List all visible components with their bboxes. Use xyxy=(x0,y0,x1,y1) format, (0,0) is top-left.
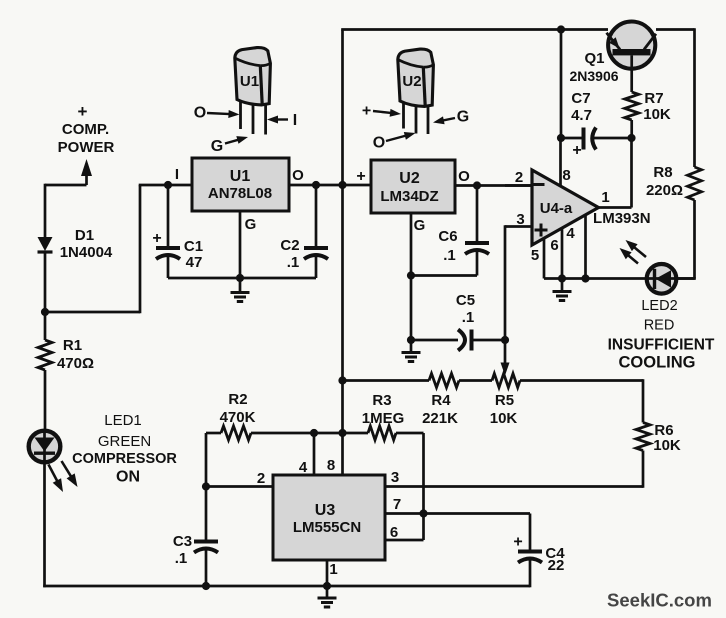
value 47 xyxy=(186,254,203,271)
wire pin2 into op-amp xyxy=(505,184,532,187)
label C2 xyxy=(280,237,299,254)
wire rail to R4 xyxy=(343,379,430,382)
value LM34DZ xyxy=(380,188,438,205)
wire +8V riser vertical xyxy=(341,30,344,476)
wire comp-power horizontal xyxy=(45,184,87,187)
label + (C7 polarity) xyxy=(572,142,581,159)
op-amp minus sign xyxy=(533,183,545,186)
svg-text:COMPRESSOR: COMPRESSOR xyxy=(72,451,177,467)
label R2 xyxy=(228,391,247,408)
label U4-a xyxy=(540,200,573,217)
value 1MEG xyxy=(362,410,405,427)
label INSUFFICIENT xyxy=(608,336,715,353)
value .1 (C6) xyxy=(443,247,456,264)
junction dot pin4 top xyxy=(310,429,318,437)
svg-text:G: G xyxy=(414,217,426,234)
svg-text:+: + xyxy=(572,142,581,159)
svg-text:10K: 10K xyxy=(490,410,518,427)
svg-text:10K: 10K xyxy=(653,437,681,454)
label C6 xyxy=(438,228,457,245)
wire C3 riser xyxy=(205,433,208,540)
svg-text:+: + xyxy=(78,102,88,121)
wire R1 top lead xyxy=(44,311,47,340)
pin label O (U2) xyxy=(458,168,470,185)
pin label 4 (U3) xyxy=(299,459,308,476)
svg-text:22: 22 xyxy=(548,557,565,574)
capacitor C5 xyxy=(458,330,472,351)
svg-text:1: 1 xyxy=(601,189,609,206)
svg-text:C1: C1 xyxy=(184,238,203,255)
svg-text:U3: U3 xyxy=(315,502,336,519)
wire C2 stem top xyxy=(315,185,318,247)
svg-text:C2: C2 xyxy=(280,237,299,254)
junction dot U2 ground xyxy=(407,336,415,344)
svg-text:R8: R8 xyxy=(653,164,672,181)
svg-text:O: O xyxy=(292,167,304,184)
wire pin7 drop to C4 xyxy=(529,514,532,551)
pin label 6 (U3) xyxy=(390,524,398,541)
pin leg + (U2 pkg) xyxy=(402,102,405,128)
svg-text:C7: C7 xyxy=(571,90,590,107)
svg-text:GREEN: GREEN xyxy=(98,433,151,450)
value 470K xyxy=(220,409,256,426)
capacitor C1 xyxy=(156,248,180,259)
svg-text:2: 2 xyxy=(515,169,523,186)
label + (comp power polarity) xyxy=(78,102,88,121)
wire R8 top lead xyxy=(693,28,696,167)
junction dot C2 top xyxy=(312,181,320,189)
pin label + (U2 pkg) xyxy=(362,103,371,120)
wire pin2 (U3) xyxy=(206,485,273,488)
junction dot R7/C7/output node xyxy=(627,134,635,142)
svg-text:D1: D1 xyxy=(75,227,94,244)
label R8 xyxy=(653,164,672,181)
pin label 2 (U4) xyxy=(515,169,523,186)
label U2 (package) xyxy=(402,73,421,90)
svg-text:6: 6 xyxy=(550,237,558,254)
pin label 8 (U3) xyxy=(327,457,335,474)
svg-text:LED1: LED1 xyxy=(104,412,142,429)
wire C7 left lead xyxy=(561,137,582,140)
label R3 xyxy=(372,392,391,409)
value .1 (C3) xyxy=(175,550,188,567)
wire pin3 (U3) xyxy=(385,485,643,488)
label U1 (box) xyxy=(230,168,251,185)
pin label + (U2) xyxy=(356,168,365,185)
pin label 3 (U3) xyxy=(391,469,399,486)
svg-text:R7: R7 xyxy=(644,90,663,107)
svg-text:1MEG: 1MEG xyxy=(362,410,405,427)
svg-text:G: G xyxy=(245,216,257,233)
pointer arrow G (U1 pkg) xyxy=(225,136,248,144)
wire LED1 to bottom rail xyxy=(43,461,46,587)
junction dot pin7 node xyxy=(419,509,427,517)
svg-text:8: 8 xyxy=(327,457,335,474)
junction dot D1/R1/U1-in xyxy=(41,308,49,316)
junction dot top rail / pin8 drop xyxy=(557,25,565,33)
wire U1 G stem xyxy=(239,211,242,278)
label LED2 xyxy=(641,298,677,314)
pin label 3 (U4) xyxy=(516,211,524,228)
svg-text:RED: RED xyxy=(644,318,675,334)
pin label 2 (U3) xyxy=(257,470,265,487)
LED1 light arrow b xyxy=(62,461,78,487)
wire pin6 (U3) xyxy=(385,514,424,541)
svg-text:.1: .1 xyxy=(287,254,300,271)
wire pin1 (U3) xyxy=(326,560,329,586)
svg-text:2: 2 xyxy=(257,470,265,487)
svg-text:C3: C3 xyxy=(173,533,192,550)
ground symbol U3 xyxy=(318,586,337,607)
LED LED2 xyxy=(647,264,695,294)
pin label G (U2 pkg) xyxy=(457,109,469,126)
label COMP. xyxy=(62,121,109,138)
junction dot C3 bottom xyxy=(202,582,210,590)
value 10K (R6) xyxy=(653,437,681,454)
pin label I (U1 pkg) xyxy=(293,112,297,129)
svg-text:470K: 470K xyxy=(220,409,256,426)
pointer arrow O (U1 pkg) xyxy=(207,110,240,118)
resistor R8 xyxy=(688,167,702,200)
svg-text:+: + xyxy=(152,230,161,247)
label Q1 xyxy=(584,50,604,67)
wire junction to U1 input riser xyxy=(45,311,140,314)
pin label 7 (U3) xyxy=(393,496,401,513)
pin label O (U2 pkg) xyxy=(373,135,385,152)
label LED1 xyxy=(104,412,142,429)
junction dot pin2 node xyxy=(202,482,210,490)
package U2 TO-92 body xyxy=(398,49,434,106)
label C7 xyxy=(571,90,590,107)
svg-text:LED2: LED2 xyxy=(641,298,677,314)
LED1 light arrow a xyxy=(49,465,64,493)
label D1 xyxy=(75,227,94,244)
pin label G (U1 pkg) xyxy=(211,138,223,155)
wire R6 top lead xyxy=(642,379,645,422)
wire C4 bottom stem xyxy=(529,558,532,587)
transistor Q1 xyxy=(607,21,657,68)
svg-text:C6: C6 xyxy=(438,228,457,245)
svg-text:.1: .1 xyxy=(175,550,188,567)
pin label G (U2) xyxy=(414,217,426,234)
wire R2-R3 wire xyxy=(251,432,368,435)
svg-text:2N3906: 2N3906 xyxy=(569,68,618,84)
svg-text:LM555CN: LM555CN xyxy=(293,519,361,536)
value 221K xyxy=(422,410,458,427)
wire top rail left xyxy=(341,28,608,31)
svg-text:.1: .1 xyxy=(462,309,475,326)
label C5 xyxy=(456,292,475,309)
svg-text:R4: R4 xyxy=(431,392,451,409)
wire Q1 base stem xyxy=(630,55,633,92)
svg-text:AN78L08: AN78L08 xyxy=(208,185,272,202)
svg-text:I: I xyxy=(293,112,297,129)
wire R8 bottom lead xyxy=(693,200,696,279)
wire op-amp output xyxy=(598,138,632,208)
label POWER xyxy=(58,139,115,156)
wire pin3 into op-amp xyxy=(505,225,532,228)
sensor U2 box xyxy=(371,160,455,213)
pin leg O (U2 pkg) xyxy=(415,106,418,133)
pin label 4 (U4) xyxy=(566,225,575,242)
capacitor C3 xyxy=(194,542,218,553)
resistor R5 (pot) xyxy=(492,374,520,388)
wire C1-C2 ground rail xyxy=(168,277,316,280)
wire C3 bottom stem xyxy=(205,548,208,586)
svg-text:LM34DZ: LM34DZ xyxy=(380,188,438,205)
svg-text:470Ω: 470Ω xyxy=(57,355,94,372)
svg-text:U2: U2 xyxy=(399,170,420,187)
svg-text:47: 47 xyxy=(186,254,203,271)
label R1 xyxy=(63,337,82,354)
svg-text:O: O xyxy=(458,168,470,185)
wire LED2 right lead xyxy=(678,277,696,280)
value 220&#937; xyxy=(646,182,683,199)
pin leg I (U1 pkg) xyxy=(264,104,267,134)
capacitor C6 xyxy=(465,243,489,254)
label GREEN xyxy=(98,433,151,450)
wire C6 stem bottom xyxy=(476,249,479,276)
svg-text:7: 7 xyxy=(393,496,401,513)
ground symbol op-amp xyxy=(553,279,572,301)
wire C5 to pin3 riser xyxy=(471,339,505,342)
junction dot riser/R2R3 wire xyxy=(338,429,346,437)
junction dot pin6/ground xyxy=(558,274,566,282)
wire C6 to G stem xyxy=(411,274,477,277)
svg-text:R5: R5 xyxy=(495,392,514,409)
label U3 (box) xyxy=(315,502,336,519)
svg-text:U1: U1 xyxy=(240,73,259,90)
wire C1 stem bottom xyxy=(167,254,170,278)
svg-text:1N4004: 1N4004 xyxy=(60,244,113,261)
pin label 1 (U3) xyxy=(329,561,337,578)
svg-text:5: 5 xyxy=(531,247,539,264)
wire op-amp bottom rail xyxy=(544,277,646,280)
svg-text:COOLING: COOLING xyxy=(619,353,696,371)
regulator U1 box xyxy=(192,158,289,211)
pin leg G (U2 pkg) xyxy=(427,106,430,134)
svg-text:4.7: 4.7 xyxy=(571,107,592,124)
junction dot pin1 ground xyxy=(323,582,331,590)
junction dot C1 top xyxy=(164,181,172,189)
label R7 xyxy=(644,90,663,107)
LED2 light arrow b xyxy=(620,248,639,264)
pin label O (U1 pkg) xyxy=(194,105,206,122)
label + (C1 polarity) xyxy=(152,230,161,247)
resistor R6 xyxy=(636,423,650,451)
svg-text:G: G xyxy=(457,109,469,126)
label COOLING xyxy=(619,353,696,371)
svg-text:+: + xyxy=(513,534,522,551)
svg-text:LM393N: LM393N xyxy=(593,210,651,227)
svg-text:R2: R2 xyxy=(228,391,247,408)
svg-text:.1: .1 xyxy=(443,247,456,264)
value 2N3906 xyxy=(569,68,618,84)
wire R3 drop to pin7 node xyxy=(422,433,425,514)
value AN78L08 xyxy=(208,185,272,202)
wire C2 stem bottom xyxy=(315,254,318,278)
junction dot pin4 xyxy=(581,274,589,282)
label R4 xyxy=(431,392,451,409)
label ON xyxy=(116,469,140,486)
wire U1 output xyxy=(289,184,371,187)
wire arrow to COMP. POWER xyxy=(81,159,92,185)
label C1 xyxy=(184,238,203,255)
svg-text:O: O xyxy=(194,105,206,122)
pin label O (U1) xyxy=(292,167,304,184)
svg-text:POWER: POWER xyxy=(58,139,115,156)
wire R7 to node xyxy=(630,120,633,138)
wire U2 output xyxy=(455,184,532,187)
junction dot +8V riser xyxy=(338,181,346,189)
value LM393N xyxy=(593,210,651,227)
capacitor C4 xyxy=(518,552,542,563)
label R6 xyxy=(654,422,673,439)
wire riser to U1 input xyxy=(139,184,192,187)
svg-text:U1: U1 xyxy=(230,168,251,185)
ground symbol U2 xyxy=(402,340,421,362)
LED LED1 xyxy=(29,430,61,462)
wire pin7 (U3) xyxy=(385,512,530,515)
label C3 xyxy=(173,533,192,550)
op-amp plus sign xyxy=(535,224,548,237)
label U1 (package) xyxy=(240,73,259,90)
pointer arrow + (U2 pkg) xyxy=(373,109,401,117)
wire pin4 stem (U3) xyxy=(313,433,316,475)
junction dot C5/pin3 riser xyxy=(501,336,509,344)
svg-text:R3: R3 xyxy=(372,392,391,409)
wire C1 stem top xyxy=(167,185,170,247)
label C4 xyxy=(545,545,565,562)
wire R6 bottom lead xyxy=(642,451,645,488)
LED2 light arrow a xyxy=(626,240,647,257)
wiper arrow onto R5 xyxy=(501,363,510,376)
wire C7 right lead xyxy=(594,137,632,140)
diode D1 xyxy=(38,237,53,252)
label COMPRESSOR xyxy=(72,451,177,467)
label RED xyxy=(644,318,675,334)
pin label 5 (U4) xyxy=(531,247,539,264)
svg-text:SeekIC.com: SeekIC.com xyxy=(607,590,712,611)
value .1 (C5) xyxy=(462,309,475,326)
value 10K (R7) xyxy=(643,106,671,123)
capacitor C2 xyxy=(304,248,328,259)
value .1 (C2) xyxy=(287,254,300,271)
svg-text:Q1: Q1 xyxy=(584,50,604,67)
value LM555CN xyxy=(293,519,361,536)
resistor R7 xyxy=(625,92,639,120)
junction dot riser/bottom-rail xyxy=(338,376,346,384)
pin label I (U1) xyxy=(175,166,179,183)
wire pin3 riser xyxy=(504,225,507,364)
value 10K (R5) xyxy=(490,410,518,427)
value 4.7 xyxy=(571,107,592,124)
svg-text:G: G xyxy=(211,138,223,155)
svg-text:+: + xyxy=(356,168,365,185)
wire R5 to R6 corner xyxy=(520,379,643,382)
svg-text:221K: 221K xyxy=(422,410,458,427)
svg-text:U4-a: U4-a xyxy=(540,200,573,217)
svg-text:ON: ON xyxy=(116,469,140,486)
junction dot C6 bottom xyxy=(407,271,415,279)
pin leg G (U1 pkg) xyxy=(252,105,255,134)
svg-text:R1: R1 xyxy=(63,337,82,354)
resistor R2 xyxy=(221,426,251,440)
pointer arrow G (U2 pkg) xyxy=(433,116,455,124)
svg-text:220Ω: 220Ω xyxy=(646,182,683,199)
svg-text:C5: C5 xyxy=(456,292,475,309)
svg-text:8: 8 xyxy=(562,167,570,184)
resistor R4 xyxy=(429,374,459,388)
ground symbol U1 xyxy=(231,278,250,302)
value 470&#937; xyxy=(57,355,94,372)
pin leg O (U1 pkg) xyxy=(239,101,242,129)
pointer arrow I (U1 pkg) xyxy=(267,116,288,124)
svg-text:4: 4 xyxy=(566,225,575,242)
wire R4-R5 xyxy=(459,379,492,382)
wire C6 stem top xyxy=(476,186,479,243)
junction dot U1 ground xyxy=(236,274,244,282)
op-amp U4-a xyxy=(532,170,599,245)
svg-text:O: O xyxy=(373,135,385,152)
pin label 6 (U4) xyxy=(550,237,558,254)
wire pin8 drop xyxy=(560,30,563,139)
junction dot C6 top xyxy=(473,181,481,189)
wire R1 to LED1 xyxy=(44,370,47,432)
value 1N4004 xyxy=(60,244,113,261)
package U1 TO-92 body xyxy=(235,48,271,105)
wire pin5 drop xyxy=(543,239,546,279)
wire R2 left lead xyxy=(206,432,221,435)
svg-text:4: 4 xyxy=(299,459,308,476)
value 22 xyxy=(548,557,565,574)
label U2 (box) xyxy=(399,170,420,187)
svg-text:1: 1 xyxy=(329,561,337,578)
svg-text:10K: 10K xyxy=(643,106,671,123)
wire bottom ground rail xyxy=(43,585,530,588)
wire ground to C5 xyxy=(411,339,458,342)
pin label 1 (U4) xyxy=(601,189,609,206)
svg-text:COMP.: COMP. xyxy=(62,121,109,138)
capacitor C7 xyxy=(584,128,597,150)
timer U3 box xyxy=(273,475,385,560)
svg-text:I: I xyxy=(175,166,179,183)
pin label G (U1) xyxy=(245,216,257,233)
wire pin6 drop xyxy=(561,228,564,279)
resistor R1 xyxy=(38,340,52,370)
wire U2 G stem xyxy=(410,213,413,340)
svg-text:INSUFFICIENT: INSUFFICIENT xyxy=(608,336,715,353)
resistor R3 xyxy=(368,426,396,440)
wire riser vertical xyxy=(139,185,142,313)
svg-text:U2: U2 xyxy=(402,73,421,90)
label R5 xyxy=(495,392,514,409)
svg-text:3: 3 xyxy=(391,469,399,486)
wire R3 right lead xyxy=(396,432,424,435)
wire pin4 drop xyxy=(584,215,587,279)
wire top rail right xyxy=(656,28,695,31)
wire comp-power to D1 xyxy=(44,184,47,237)
pin label 8 (U4) xyxy=(562,167,570,184)
label + (C4 polarity) xyxy=(513,534,522,551)
junction dot pin8/C7 node xyxy=(557,134,565,142)
wire pin8 stem xyxy=(559,138,562,186)
watermark SeekIC.com xyxy=(607,590,712,611)
pointer arrow O (U2 pkg) xyxy=(386,132,416,141)
svg-text:+: + xyxy=(362,103,371,120)
wire D1 to junction xyxy=(44,252,47,312)
